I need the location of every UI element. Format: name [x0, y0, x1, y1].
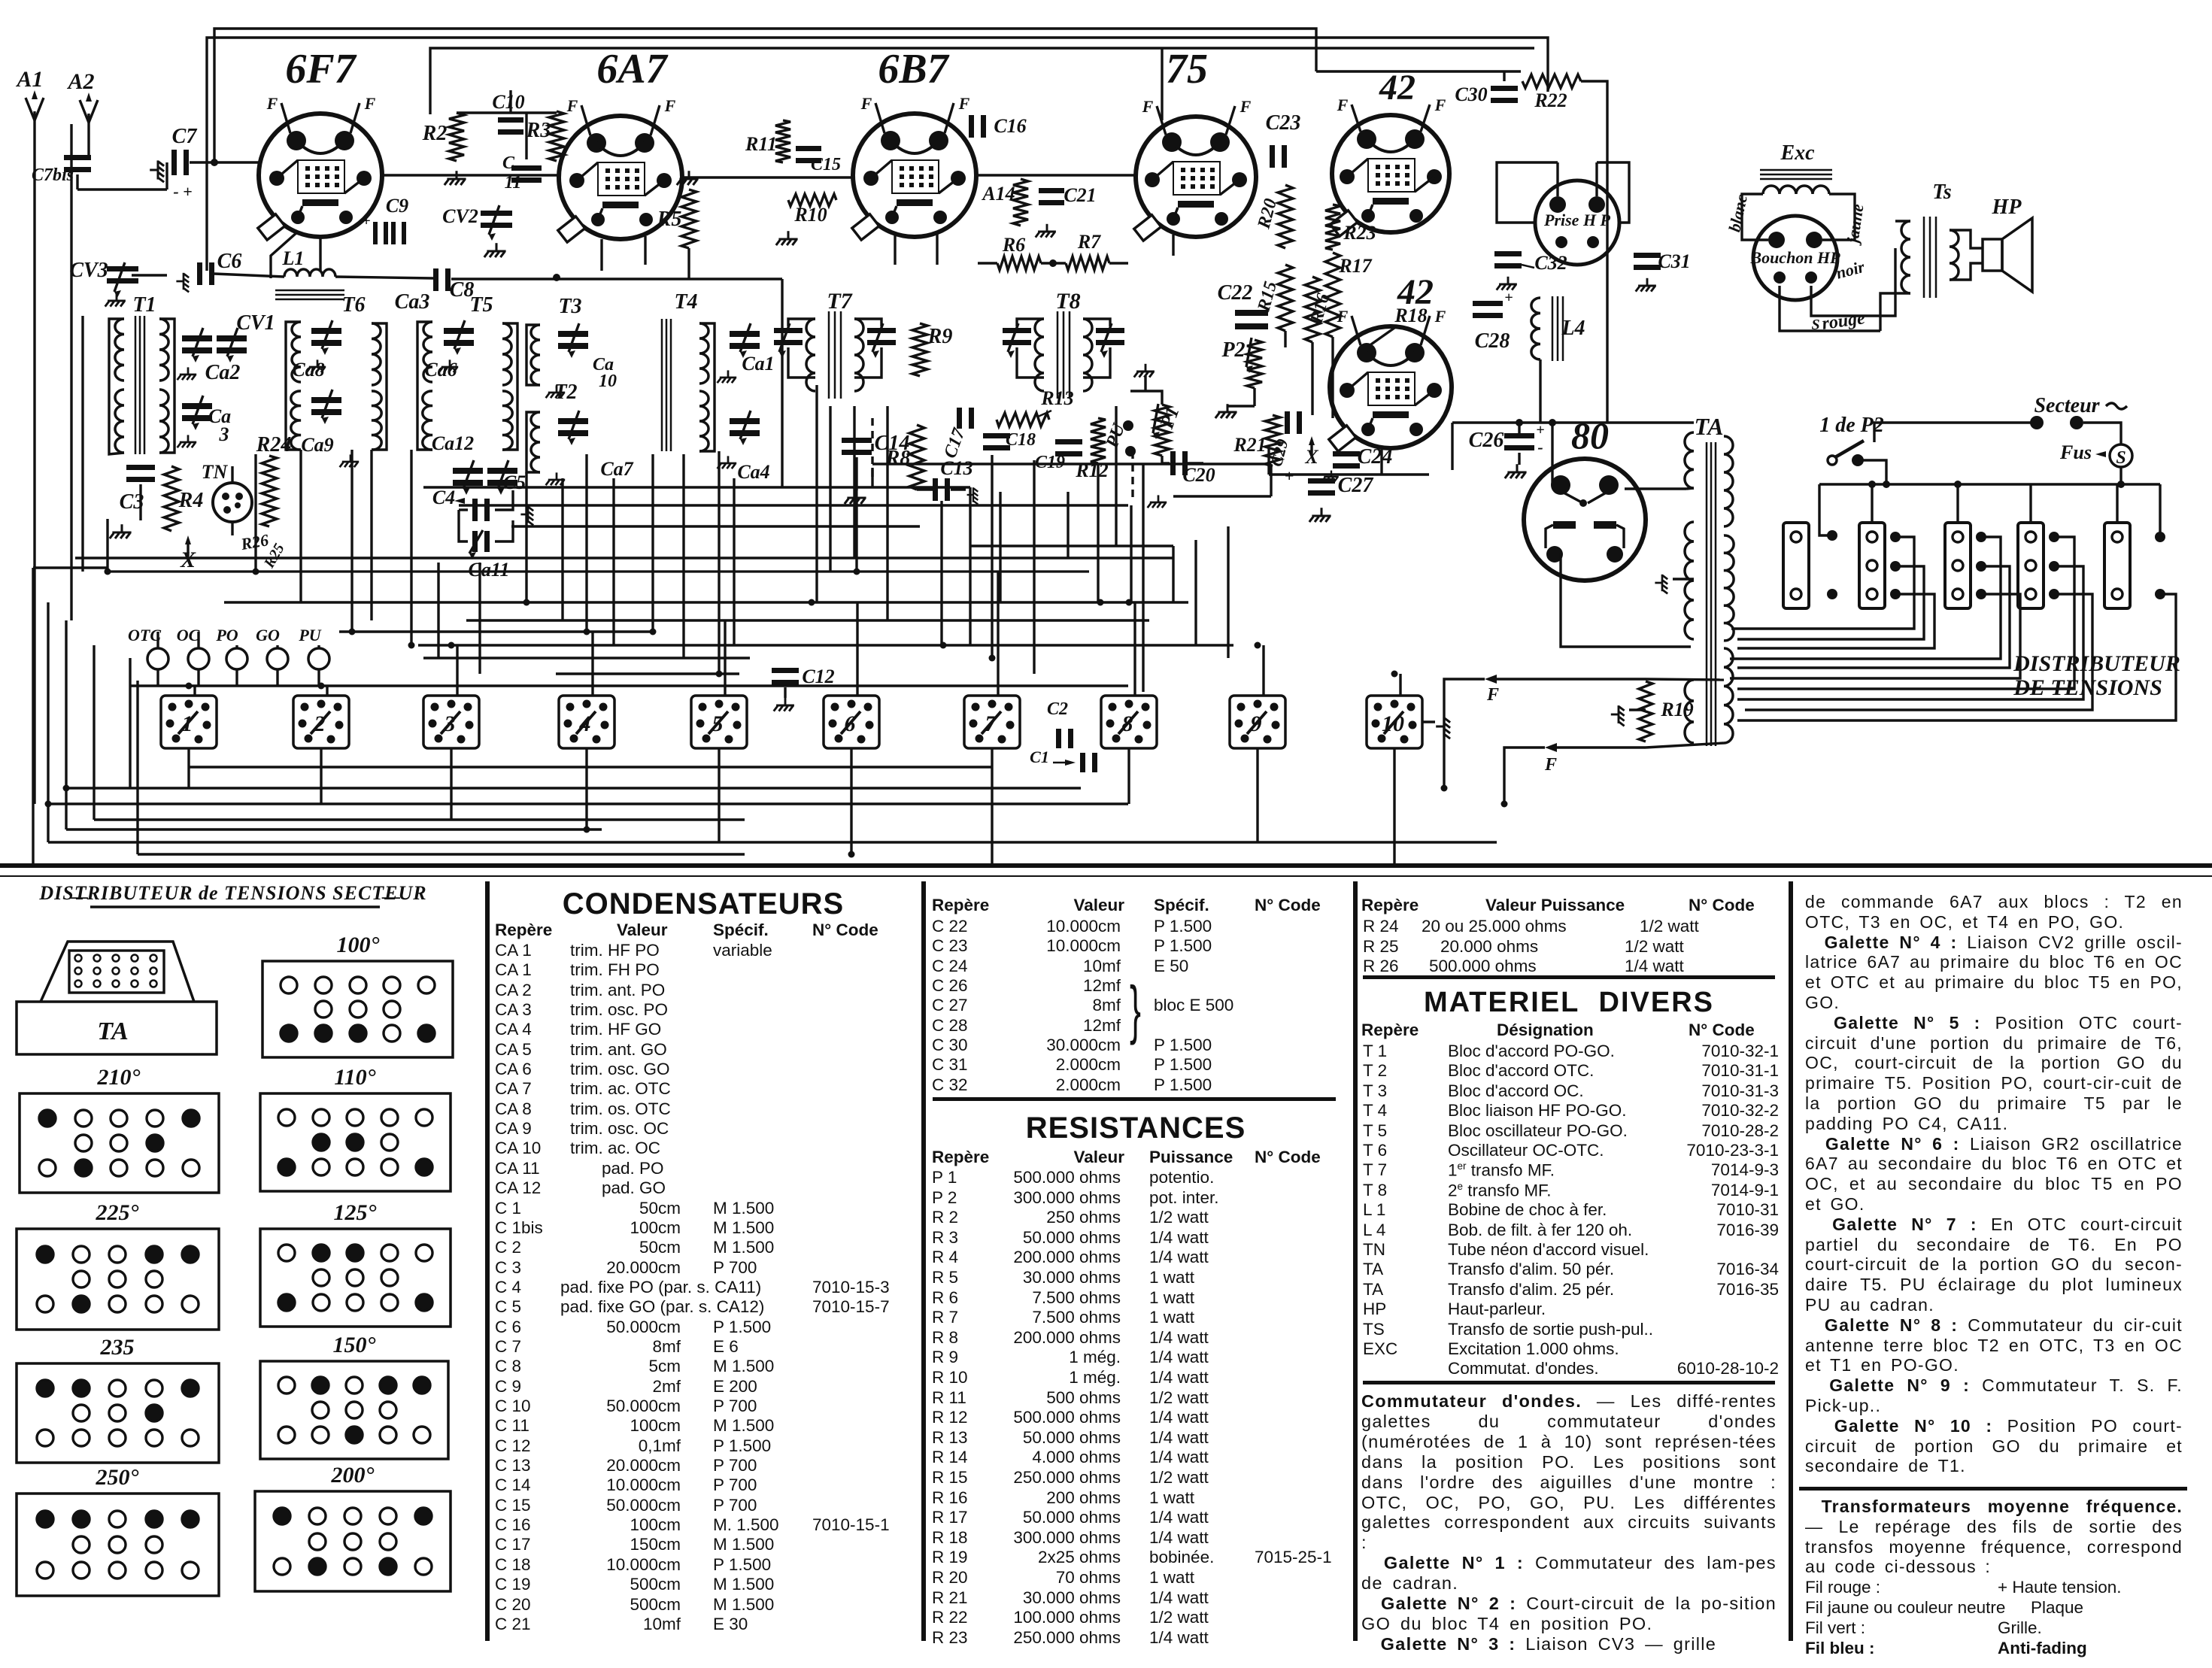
- svg-text:R10: R10: [793, 204, 827, 226]
- svg-text:R3: R3: [526, 119, 551, 142]
- switch wafer 3: [423, 696, 479, 748]
- switch wafer 4: [559, 696, 614, 748]
- wire bouchon loop: [1742, 194, 1768, 240]
- capacitor C21: [1039, 188, 1064, 193]
- wire lower mid verticals: [781, 279, 783, 487]
- svg-text:R21: R21: [1233, 434, 1266, 456]
- capacitor C17: [957, 408, 962, 429]
- svg-text:TA: TA: [1694, 413, 1723, 440]
- svg-text:C16: C16: [994, 115, 1026, 137]
- svg-text:DE TENSIONS: DE TENSIONS: [2013, 675, 2162, 700]
- switch wafer 8: [1101, 696, 1157, 748]
- neon tube TN: [213, 483, 252, 522]
- wire HT bus: [1452, 421, 1694, 423]
- svg-text:CV3: CV3: [69, 259, 108, 282]
- wire C7 junction: [165, 162, 168, 190]
- capacitor C28: [1473, 301, 1503, 306]
- svg-text:+: +: [1504, 290, 1513, 306]
- trimmer Ca4: [730, 418, 760, 424]
- svg-text:80: 80: [1571, 414, 1609, 456]
- wire extra verticals T7 T8 zone: [829, 406, 831, 572]
- svg-text:C31: C31: [1658, 250, 1690, 272]
- svg-text:75: 75: [1166, 46, 1208, 92]
- svg-text:F: F: [1434, 96, 1446, 114]
- svg-text:C2: C2: [1047, 699, 1068, 719]
- svg-text:C23: C23: [1266, 111, 1301, 135]
- svg-text:F: F: [860, 94, 872, 113]
- svg-text:250°: 250°: [96, 1465, 139, 1490]
- svg-text:R5: R5: [657, 208, 682, 231]
- capacitor C13: [933, 478, 938, 501]
- wire left rail 2: [47, 602, 49, 842]
- switch lamp OTC: [147, 648, 168, 669]
- wire mains bus: [1819, 483, 2160, 485]
- wire T8 frame: [1017, 319, 1044, 326]
- svg-text:A1: A1: [15, 67, 43, 92]
- wire F upper: [1497, 678, 1646, 680]
- svg-text:R9: R9: [927, 325, 953, 348]
- svg-text:C9: C9: [386, 195, 408, 217]
- svg-text:C26: C26: [1469, 429, 1504, 452]
- svg-text:R13: R13: [1040, 387, 1073, 409]
- distributor plug 3: [1945, 523, 1971, 608]
- wire bus band A7: [556, 672, 739, 675]
- wire lamp stubs: [156, 632, 159, 648]
- resistor R19: [1639, 681, 1652, 742]
- dashed wire near P1: [1131, 451, 1133, 502]
- svg-text:R19: R19: [1660, 699, 1693, 720]
- svg-text:100°: 100°: [337, 933, 380, 957]
- svg-text:T4: T4: [674, 290, 697, 314]
- svg-text:L4: L4: [1561, 317, 1585, 340]
- wire wafer top feeds: [193, 686, 196, 695]
- svg-text:C18: C18: [1006, 430, 1036, 450]
- svg-text:150°: 150°: [333, 1333, 376, 1357]
- resistor R4: [164, 466, 179, 531]
- trimmer T7 right: [867, 328, 896, 333]
- switch lamp PU: [308, 648, 329, 669]
- wire bus band A3: [466, 619, 1149, 621]
- connector Prise HP: [1535, 180, 1619, 265]
- resistor R22: [1522, 74, 1581, 88]
- node secteur 2: [2070, 416, 2083, 429]
- svg-text:—: —: [69, 887, 88, 907]
- svg-text:- +: - +: [173, 182, 192, 201]
- wire C30 top: [1503, 71, 1505, 81]
- capacitor C24: [1333, 451, 1360, 456]
- svg-text:125°: 125°: [334, 1200, 377, 1225]
- transformer T7: [806, 319, 815, 391]
- svg-text:T1: T1: [132, 293, 156, 317]
- tube 42 lower: [1330, 326, 1452, 448]
- svg-text:C12: C12: [802, 666, 834, 687]
- svg-text:6A7: 6A7: [596, 46, 668, 92]
- svg-text:C15: C15: [811, 155, 841, 174]
- wire bus band A2: [224, 601, 1128, 603]
- svg-text:T5: T5: [469, 293, 493, 317]
- trimmer Ca9: [311, 397, 341, 403]
- svg-text:GO: GO: [256, 626, 280, 644]
- svg-text:Ca12: Ca12: [432, 432, 474, 454]
- wire bus band B3: [94, 818, 745, 820]
- svg-text:C20: C20: [1182, 464, 1215, 486]
- trimmer Ca7: [558, 418, 588, 424]
- wire 6F7 plate to 6A7: [382, 174, 557, 176]
- capacitor C19: [1055, 439, 1082, 444]
- ground wafer 10: [1436, 717, 1450, 738]
- svg-text:C7bis: C7bis: [32, 165, 74, 185]
- inductor L4: [1531, 298, 1540, 359]
- wire left rail 6: [136, 681, 138, 854]
- capacitor C8: [433, 268, 438, 291]
- distributor plug 5: [2104, 523, 2130, 608]
- ground TA secondary CT: [1655, 575, 1667, 594]
- wire left rail 4: [93, 645, 95, 820]
- resistor R3: [549, 111, 564, 161]
- svg-text:Ca11: Ca11: [469, 559, 510, 581]
- svg-text:C4: C4: [432, 487, 455, 508]
- resistor A14: [1013, 179, 1028, 226]
- svg-text:10: 10: [599, 372, 617, 391]
- svg-text:F: F: [1142, 97, 1154, 116]
- trimmer Ca8: [311, 328, 341, 334]
- switch wafer 10: [1367, 696, 1422, 748]
- wire bus band B6: [138, 853, 745, 855]
- transformer T8: [1035, 319, 1044, 391]
- trimmer Ca11: [472, 531, 478, 552]
- inductor L1: [284, 269, 335, 277]
- svg-text:Ts: Ts: [1932, 180, 1952, 204]
- potentiometer P2: [1247, 340, 1262, 388]
- svg-text:TN: TN: [202, 461, 229, 483]
- wire plug feeds: [1871, 484, 1873, 523]
- svg-text:R8: R8: [885, 447, 911, 470]
- svg-text:225°: 225°: [96, 1200, 139, 1225]
- capacitor C22: [1235, 310, 1268, 316]
- svg-text:-: -: [1537, 438, 1543, 456]
- svg-text:A2: A2: [66, 69, 94, 94]
- resistor R23: [1325, 205, 1340, 250]
- svg-text:Fus: Fus: [2059, 441, 2092, 463]
- svg-text:F: F: [958, 94, 970, 113]
- wire secteur to switch: [1874, 423, 2031, 442]
- svg-text:C27: C27: [1338, 474, 1374, 497]
- capacitor C15: [796, 146, 821, 151]
- switch lamp OC: [188, 648, 209, 669]
- svg-text:PU: PU: [298, 626, 321, 644]
- svg-text:235: 235: [100, 1335, 135, 1360]
- svg-text:C: C: [502, 153, 515, 173]
- wire 6A7 drops: [600, 239, 602, 271]
- wire TN leads: [231, 466, 233, 483]
- wire 6F7 grid drop: [319, 237, 321, 271]
- svg-text:200°: 200°: [331, 1463, 375, 1488]
- resistor R15: [1278, 265, 1293, 331]
- svg-text:C5: C5: [503, 472, 526, 493]
- svg-text:C30: C30: [1455, 83, 1487, 105]
- wire left rail 3: [65, 620, 67, 829]
- svg-text:R2: R2: [422, 122, 448, 145]
- wire L4 to bus: [1539, 359, 1541, 423]
- wire wafer row top rail: [130, 684, 1128, 687]
- capacitor C16: [969, 115, 974, 138]
- wire top bus inner: [430, 48, 1534, 114]
- resistor R5: [677, 171, 699, 185]
- distributor plug 4: [2018, 523, 2044, 608]
- wire vertical drops from blocks: [254, 454, 256, 572]
- tube 6A7: [559, 116, 682, 239]
- resistor R8: [909, 425, 924, 490]
- svg-text:CV2: CV2: [442, 205, 478, 227]
- svg-text:DISTRIBUTEUR de TENSIONS SE: DISTRIBUTEUR de TENSIONS SECTEUR: [38, 882, 426, 904]
- capacitor C14: [842, 438, 872, 443]
- svg-text:R4: R4: [178, 489, 204, 512]
- tube 75: [1136, 117, 1256, 237]
- junction dots: [253, 569, 259, 575]
- wire top bus outer: [214, 29, 1316, 162]
- switch wafer 1: [161, 696, 217, 748]
- distributor plug 2: [1859, 523, 1885, 608]
- capacitor C26: [1504, 433, 1534, 438]
- svg-text:F: F: [1337, 307, 1349, 326]
- trimmer Ca10: [558, 331, 588, 337]
- trimmer Ca6: [444, 328, 474, 334]
- wire wafer row bottom rail: [189, 766, 992, 768]
- trimmer CV1: [182, 335, 212, 341]
- wire prise hp leads: [1556, 162, 1558, 196]
- svg-text:T6: T6: [341, 293, 365, 317]
- svg-text:R6: R6: [1002, 234, 1025, 256]
- resistor R24: [262, 456, 277, 526]
- svg-text:—: —: [381, 887, 400, 907]
- wire top left verticals: [70, 124, 72, 620]
- wire R15 R16 R17 links: [1284, 331, 1286, 347]
- svg-text:R11: R11: [745, 133, 777, 155]
- svg-text:F: F: [266, 94, 278, 113]
- svg-text:6B7: 6B7: [878, 46, 949, 92]
- TA plug drawing: [41, 942, 194, 1002]
- wire 42 lower drop: [1380, 450, 1382, 475]
- wire lower mid horizontals: [423, 486, 970, 488]
- resistor R10: [788, 194, 836, 206]
- wire ts to hp: [1950, 230, 1983, 248]
- svg-text:110°: 110°: [334, 1065, 375, 1090]
- capacitor C29: [1285, 411, 1290, 434]
- svg-text:3: 3: [219, 423, 229, 445]
- wire 75 drop: [1172, 235, 1174, 256]
- capacitor C6: [197, 262, 202, 285]
- svg-text:S: S: [2116, 448, 2126, 468]
- wire left rail 5: [129, 658, 131, 788]
- trimmer T8 right: [1096, 328, 1124, 333]
- resistor R13: [997, 413, 1049, 426]
- resistor R12: [1091, 418, 1106, 463]
- wire right band extensions: [1128, 601, 1188, 603]
- wire detector line: [132, 274, 167, 276]
- wire bus band A4: [339, 630, 653, 632]
- resistor R11: [775, 120, 790, 162]
- svg-text:C6: C6: [217, 250, 242, 273]
- svg-text:C21: C21: [1064, 184, 1096, 206]
- svg-text:Ca9: Ca9: [301, 434, 333, 456]
- switch lamp GO: [267, 648, 288, 669]
- wire bus band A5: [418, 644, 1173, 646]
- switch wafer 6: [824, 696, 879, 748]
- svg-text:R7: R7: [1077, 231, 1101, 253]
- capacitor C10: [498, 117, 523, 123]
- svg-text:F: F: [1434, 307, 1446, 326]
- svg-text:F: F: [1337, 96, 1349, 114]
- capacitor C7: [171, 150, 177, 175]
- svg-text:F: F: [664, 96, 676, 115]
- tube 42 upper: [1332, 115, 1449, 232]
- node secteur 1: [2030, 416, 2044, 429]
- wire bus band B4: [66, 828, 602, 830]
- svg-text:210°: 210°: [97, 1065, 141, 1090]
- svg-text:Ca6: Ca6: [424, 359, 457, 381]
- distributor plug node dots: [1827, 530, 1837, 541]
- svg-text:OC: OC: [177, 626, 200, 644]
- svg-text:42: 42: [1379, 68, 1415, 108]
- svg-text:PO: PO: [215, 626, 238, 644]
- svg-text:Prise H P: Prise H P: [1543, 211, 1611, 229]
- svg-text:F: F: [1544, 755, 1557, 775]
- wire top bus middle: [207, 38, 1548, 271]
- trimmer CV2: [481, 211, 512, 216]
- svg-text:Ca4: Ca4: [737, 461, 769, 483]
- svg-text:Secteur: Secteur: [2034, 394, 2100, 417]
- wire bus band A6: [423, 657, 750, 659]
- wire 42 cathode rail: [1269, 473, 1429, 475]
- capacitor C20: [1170, 451, 1176, 475]
- wire bus band B7: [33, 865, 1394, 867]
- dashed wire near T8: [871, 418, 873, 481]
- svg-text:T3: T3: [558, 295, 581, 318]
- wire T7 frame: [788, 319, 815, 326]
- capacitor C12: [772, 668, 799, 673]
- capacitor C9: [373, 222, 378, 244]
- svg-text:Ca8: Ca8: [292, 359, 324, 381]
- capacitor C27: [1308, 478, 1335, 484]
- svg-text:F: F: [1486, 685, 1499, 705]
- svg-text:+: +: [1536, 422, 1544, 438]
- svg-text:C7: C7: [172, 125, 198, 148]
- svg-text:T8: T8: [1055, 289, 1080, 314]
- resistor R21: [1265, 415, 1280, 466]
- resistor R20: [1278, 185, 1293, 248]
- svg-text:HP: HP: [1992, 196, 2022, 219]
- svg-text:F: F: [364, 94, 376, 113]
- wire 6A7 plate to 6B7: [684, 176, 853, 178]
- svg-text:R23: R23: [1343, 222, 1376, 244]
- capacitor C31: [1634, 253, 1661, 258]
- svg-text:A14: A14: [981, 183, 1015, 205]
- switch lamp PO: [226, 648, 247, 669]
- wire bus band A1: [108, 570, 1089, 572]
- svg-text:F: F: [1240, 97, 1252, 116]
- svg-text:T7: T7: [827, 289, 852, 314]
- resistor R16: [1305, 277, 1320, 342]
- svg-text:Ca2: Ca2: [205, 361, 241, 384]
- trimmer Ca3: [182, 403, 212, 409]
- distributor plug 1: [1783, 523, 1809, 608]
- resistor R9: [912, 323, 927, 376]
- wire bus band B2: [48, 802, 1128, 805]
- switch wafer 9: [1230, 696, 1285, 748]
- svg-text:DISTRIBUTEUR: DISTRIBUTEUR: [2013, 651, 2180, 676]
- capacitor C7bis: [64, 155, 91, 160]
- svg-text:F: F: [566, 96, 578, 115]
- capacitor C3: [126, 465, 155, 470]
- resistor R2: [449, 113, 464, 161]
- resistor R7: [1066, 256, 1109, 270]
- capacitor C18: [983, 433, 1010, 438]
- capacitor C32: [1494, 251, 1522, 256]
- wire plugs to TA taps: [1731, 537, 1914, 629]
- svg-text:CV1: CV1: [236, 311, 275, 335]
- wire left rail 1: [32, 568, 34, 866]
- wire bus band B5: [48, 841, 1258, 843]
- wire wafer bottom drops: [187, 749, 190, 788]
- svg-text:Ca7: Ca7: [600, 458, 633, 480]
- svg-text:C24: C24: [1358, 445, 1393, 469]
- ground P1 top: [1134, 364, 1155, 378]
- svg-text:Exc: Exc: [1780, 141, 1815, 165]
- tube 80 rectifier: [1524, 459, 1646, 581]
- wire secteur to fuse: [2083, 423, 2121, 444]
- wire 6B7 plate to 75: [976, 174, 1136, 176]
- resistor R17: [1325, 253, 1340, 337]
- wire 6B7 drops: [894, 235, 896, 265]
- svg-text:C1: C1: [1030, 748, 1049, 766]
- trimmer Ca1: [730, 331, 760, 337]
- switch wafer 5: [691, 696, 747, 748]
- svg-text:+: +: [362, 213, 370, 229]
- wire inner frame 6A7-75: [1161, 48, 1163, 120]
- wire bus band B1: [66, 787, 1081, 789]
- svg-text:L1: L1: [282, 247, 305, 269]
- svg-text:C10: C10: [492, 91, 524, 113]
- svg-text:C19: C19: [1035, 453, 1065, 472]
- svg-text:Ca3: Ca3: [395, 290, 430, 314]
- wire nest extra horizontals: [872, 462, 1271, 465]
- svg-text:6F7: 6F7: [285, 46, 357, 92]
- svg-text:R22: R22: [1534, 89, 1567, 111]
- wire F lower: [1557, 746, 1646, 748]
- svg-text:R17: R17: [1338, 255, 1372, 277]
- svg-text:Bouchon HP: Bouchon HP: [1749, 248, 1840, 267]
- svg-text:OTC: OTC: [128, 626, 161, 644]
- svg-text:Ca1: Ca1: [742, 353, 774, 375]
- svg-text:C22: C22: [1218, 281, 1253, 305]
- ground 6B7 input: [776, 231, 798, 245]
- svg-text:C28: C28: [1475, 329, 1510, 353]
- potentiometer P1: [1155, 405, 1170, 456]
- svg-text:P2: P2: [1221, 338, 1245, 362]
- switch wafer 2: [293, 696, 349, 748]
- wire 80 filament to TA: [1561, 553, 1691, 647]
- wire AVC line: [978, 262, 997, 264]
- trimmer T8 left: [1003, 328, 1031, 333]
- connector Bouchon HP: [1753, 216, 1837, 300]
- switch wafer 7: [964, 696, 1020, 748]
- wire frame right step: [1316, 70, 1521, 72]
- wire 80 plate leads: [1551, 423, 1553, 485]
- wire R22 right drop: [1581, 81, 1607, 423]
- wire 6F7 cathode drop: [271, 232, 298, 278]
- resistor R6: [997, 256, 1041, 270]
- trimmer T7 left: [774, 328, 803, 333]
